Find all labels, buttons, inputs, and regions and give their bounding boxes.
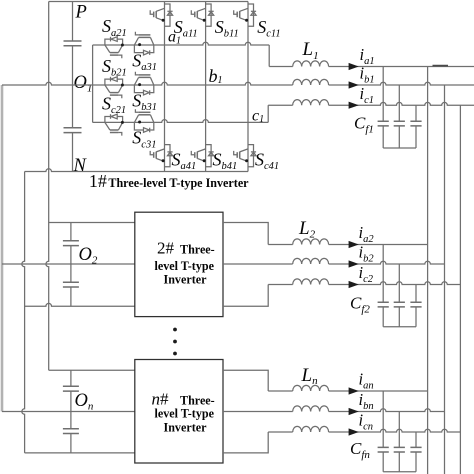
wire c-phase middle row xyxy=(93,120,269,123)
svg-text:L2: L2 xyxy=(298,218,316,241)
svg-text:Sb11: Sb11 xyxy=(215,17,239,40)
wire P rail to inverter 2 xyxy=(49,222,135,224)
transistor Sc31 (bidirectional switch right IGBT) xyxy=(134,109,153,132)
capacitor C_f1 b-phase xyxy=(394,121,405,126)
svg-text:Three-: Three- xyxy=(180,243,215,257)
current arrow 2 xyxy=(349,241,359,248)
transistor Sb21 (bidirectional switch left IGBT) xyxy=(105,77,124,98)
wire bn output row xyxy=(223,409,445,412)
capacitor C_f2 a-phase xyxy=(378,302,389,307)
wire c2 output row xyxy=(268,282,460,285)
wire b-phase common AC bus xyxy=(444,85,446,474)
capacitor C_fn c-phase xyxy=(410,447,421,452)
ellipsis dots between inverters xyxy=(173,328,177,356)
svg-text:Cf1: Cf1 xyxy=(354,113,374,135)
svg-text:P: P xyxy=(75,3,87,23)
svg-text:Sa41: Sa41 xyxy=(172,150,197,173)
capacitor upper DC-link cap (inverter n) xyxy=(63,386,79,391)
svg-text:icn: icn xyxy=(359,411,374,433)
wire On line xyxy=(2,411,135,413)
svg-text:ian: ian xyxy=(359,370,374,392)
capacitor C_f1 a-phase xyxy=(378,121,389,126)
svg-text:Sb21: Sb21 xyxy=(102,56,127,79)
inductor coil 2 xyxy=(293,239,329,245)
svg-text:1#: 1# xyxy=(89,171,107,191)
wire P rail (inverter 1 top) xyxy=(49,1,248,3)
svg-text:O1: O1 xyxy=(74,73,93,95)
transistor Sb31 (bidirectional switch right IGBT) xyxy=(134,72,153,95)
transistor Sb11 (top IGBT with diode) xyxy=(191,4,213,26)
wire P rail to inverter n xyxy=(49,369,135,371)
wire a-phase leg xyxy=(164,2,166,172)
inductor coil n xyxy=(293,426,329,432)
svg-text:2#: 2# xyxy=(157,239,175,258)
wire an output stub xyxy=(223,370,268,391)
svg-text:L1: L1 xyxy=(302,39,319,62)
wire filter star bus n xyxy=(383,471,416,473)
wire filter star bus 1 xyxy=(383,147,416,149)
wire c-branch to filter cap 1 xyxy=(415,105,417,148)
svg-text:b1: b1 xyxy=(209,66,223,86)
wire c-phase common AC bus xyxy=(459,105,461,474)
wire c-row step up xyxy=(267,105,269,122)
svg-text:Cf2: Cf2 xyxy=(350,294,370,316)
wire N distribution vertical xyxy=(22,172,25,453)
transistor Sa41 (bottom IGBT with diode) xyxy=(150,145,172,167)
capacitor C_f2 b-phase xyxy=(394,302,405,307)
svg-text:Inverter: Inverter xyxy=(164,421,208,435)
current arrow 2 xyxy=(349,260,359,267)
capacitor lower DC-link cap (inverter n) xyxy=(63,429,79,434)
capacitor lower DC-link cap (inverter 1) xyxy=(64,128,82,133)
svg-text:Sc11: Sc11 xyxy=(257,17,280,40)
svg-text:Sc31: Sc31 xyxy=(132,128,156,151)
wire O2 line xyxy=(2,263,135,265)
svg-text:level T-type: level T-type xyxy=(155,259,215,273)
wire a-phase middle row xyxy=(93,42,270,45)
wire c-branch to filter cap 2 xyxy=(415,285,417,327)
wire a-phase output row xyxy=(269,66,474,68)
transistor Sa31 (bidirectional switch right IGBT) xyxy=(134,32,153,55)
wire a-row step down xyxy=(268,45,270,67)
inductor coil n xyxy=(293,385,329,391)
current arrow 1 xyxy=(349,63,359,70)
inductor coil 1 xyxy=(293,61,329,67)
wire c-phase leg xyxy=(247,2,249,172)
wire cn output stub xyxy=(223,432,268,453)
svg-text:level T-type: level T-type xyxy=(155,407,215,421)
svg-text:N: N xyxy=(73,156,88,176)
wire filter star bus 2 xyxy=(383,326,416,328)
transistor Sa21 (bidirectional switch left IGBT) xyxy=(105,37,124,58)
svg-text:Three-level T-type Inverter: Three-level T-type Inverter xyxy=(108,176,249,190)
current arrow 1 xyxy=(349,81,359,88)
wire a2 output stub xyxy=(223,223,268,245)
wire an output row xyxy=(268,390,427,392)
wire DC-link of inverter n xyxy=(70,370,72,453)
capacitor C_f2 c-phase xyxy=(410,302,421,307)
svg-text:On: On xyxy=(75,391,94,413)
capacitor upper DC-link cap (inverter 1) xyxy=(64,41,82,46)
wire b-phase leg xyxy=(205,2,207,172)
svg-text:Sa31: Sa31 xyxy=(132,50,157,73)
wire b-branch to filter cap 1 xyxy=(398,85,400,148)
transistor Sc41 (bottom IGBT with diode) xyxy=(234,145,256,167)
wire dark overdrawn segment on a-row xyxy=(433,65,449,67)
svg-text:Inverter: Inverter xyxy=(164,273,208,287)
svg-text:Cfn: Cfn xyxy=(350,439,370,461)
wire N rail (inverter 1 bottom) xyxy=(25,169,248,172)
svg-text:Sb31: Sb31 xyxy=(132,90,157,113)
capacitor C_f1 c-phase xyxy=(410,121,421,126)
inductor coil n xyxy=(293,406,329,412)
wire trunk of bidirectional switches xyxy=(92,45,94,122)
wire a-branch to filter cap 2 xyxy=(382,245,384,327)
wire O1/b-phase row (y=85) xyxy=(2,82,474,85)
transistor Sc21 (bidirectional switch left IGBT) xyxy=(105,114,124,135)
wire N rail to inverter 2 xyxy=(25,303,135,306)
wire c-phase output row xyxy=(268,102,474,105)
inductor coil 2 xyxy=(293,258,329,264)
capacitor C_fn b-phase xyxy=(394,447,405,452)
wire P distribution vertical xyxy=(46,2,49,371)
svg-text:Sc21: Sc21 xyxy=(102,93,126,116)
wire b2 output row xyxy=(223,261,445,264)
wire c2 output stub xyxy=(223,285,268,307)
wire a-branch to filter cap 1 xyxy=(382,67,384,149)
svg-text:c1: c1 xyxy=(252,108,264,126)
svg-text:ibn: ibn xyxy=(359,390,374,412)
inductor coil 1 xyxy=(293,100,329,106)
wire DC-link of inverter 2 xyxy=(70,223,72,307)
svg-text:Ln: Ln xyxy=(301,365,319,387)
svg-text:ib2: ib2 xyxy=(359,243,375,265)
capacitor C_fn a-phase xyxy=(378,447,389,452)
current arrow 1 xyxy=(349,102,359,109)
wire O distribution vertical (far left) xyxy=(1,85,4,412)
wire a-phase common AC bus xyxy=(427,67,429,474)
inductor coil 1 xyxy=(293,79,329,85)
transistor Sc11 (top IGBT with diode) xyxy=(234,4,256,26)
svg-text:Three-: Three- xyxy=(180,393,215,407)
wire N rail to inverter n xyxy=(25,452,135,454)
wire DC-link bus of inverter 1 xyxy=(72,2,74,172)
svg-text:Sa21: Sa21 xyxy=(102,16,127,39)
current arrow n xyxy=(349,387,359,394)
svg-text:ic1: ic1 xyxy=(360,84,375,106)
current arrow n xyxy=(349,408,359,415)
svg-text:n#: n# xyxy=(152,389,170,408)
inductor coil 2 xyxy=(293,279,329,285)
svg-text:ic2: ic2 xyxy=(359,263,374,285)
current arrow n xyxy=(349,428,359,435)
wire c-branch to filter cap n xyxy=(415,432,417,472)
wire a2 output row xyxy=(268,244,427,246)
wire cn output row xyxy=(268,429,460,432)
transistor Sb41 (bottom IGBT with diode) xyxy=(191,145,213,167)
capacitor lower DC-link cap (inverter 2) xyxy=(63,282,79,287)
block inverter 2 xyxy=(135,212,223,316)
svg-text:Sc41: Sc41 xyxy=(255,150,279,173)
svg-text:O2: O2 xyxy=(79,245,98,267)
wire a-branch to filter cap n xyxy=(382,391,384,472)
capacitor upper DC-link cap (inverter 2) xyxy=(63,241,79,246)
wire b-branch to filter cap n xyxy=(398,412,400,472)
wire b-branch to filter cap 2 xyxy=(398,264,400,327)
transistor Sa11 (top IGBT with diode) xyxy=(150,4,172,26)
block inverter n xyxy=(135,360,223,464)
current arrow 2 xyxy=(349,281,359,288)
